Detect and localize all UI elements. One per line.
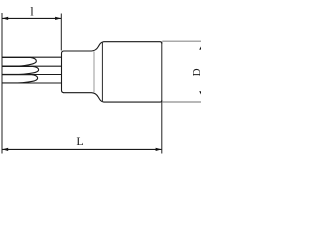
torx flute 2 xyxy=(2,66,39,74)
drive section top line (gray) xyxy=(162,40,201,42)
svg-text:D: D xyxy=(191,68,201,76)
extension line left (x=2, full height) xyxy=(1,13,3,154)
body right face / extension line of L xyxy=(161,42,163,154)
collar end face line (gray) xyxy=(93,52,95,93)
shank line 3 xyxy=(2,74,62,76)
socket upper contour (collar top, fillet, body top) xyxy=(64,42,162,51)
arrowhead D bottom (clipped at image edge) xyxy=(199,91,203,95)
arrowhead L right xyxy=(156,148,162,151)
shank line 1 xyxy=(2,56,62,58)
arrowhead L left xyxy=(2,148,8,151)
shank line 4 xyxy=(2,82,62,84)
dimension line l xyxy=(3,17,62,19)
svg-text:l: l xyxy=(30,5,34,19)
shank line 2 xyxy=(2,65,62,67)
extension line right of dimension l xyxy=(60,14,62,51)
socket lower contour (collar bottom, fillet, body bottom) xyxy=(64,93,162,102)
torx flute 1 xyxy=(2,57,36,66)
dimension line L xyxy=(3,148,162,150)
arrowhead l left xyxy=(2,17,8,20)
arrowhead l right xyxy=(55,17,61,20)
arrowhead D top (clipped at image edge) xyxy=(199,46,203,50)
body step tangent line xyxy=(101,42,103,102)
drive section bottom line (gray) xyxy=(162,101,201,103)
svg-text:L: L xyxy=(76,134,83,148)
socket collar left cap xyxy=(62,51,65,93)
torx flute 3 xyxy=(2,75,38,83)
